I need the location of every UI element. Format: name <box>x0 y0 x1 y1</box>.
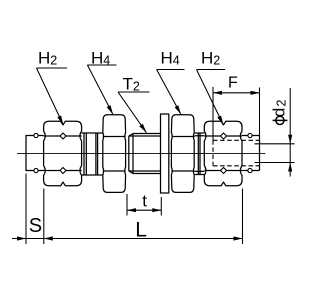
svg-text:t: t <box>142 191 147 210</box>
svg-text:F: F <box>228 74 238 91</box>
svg-text:S: S <box>29 215 42 237</box>
svg-text:L: L <box>135 219 147 242</box>
